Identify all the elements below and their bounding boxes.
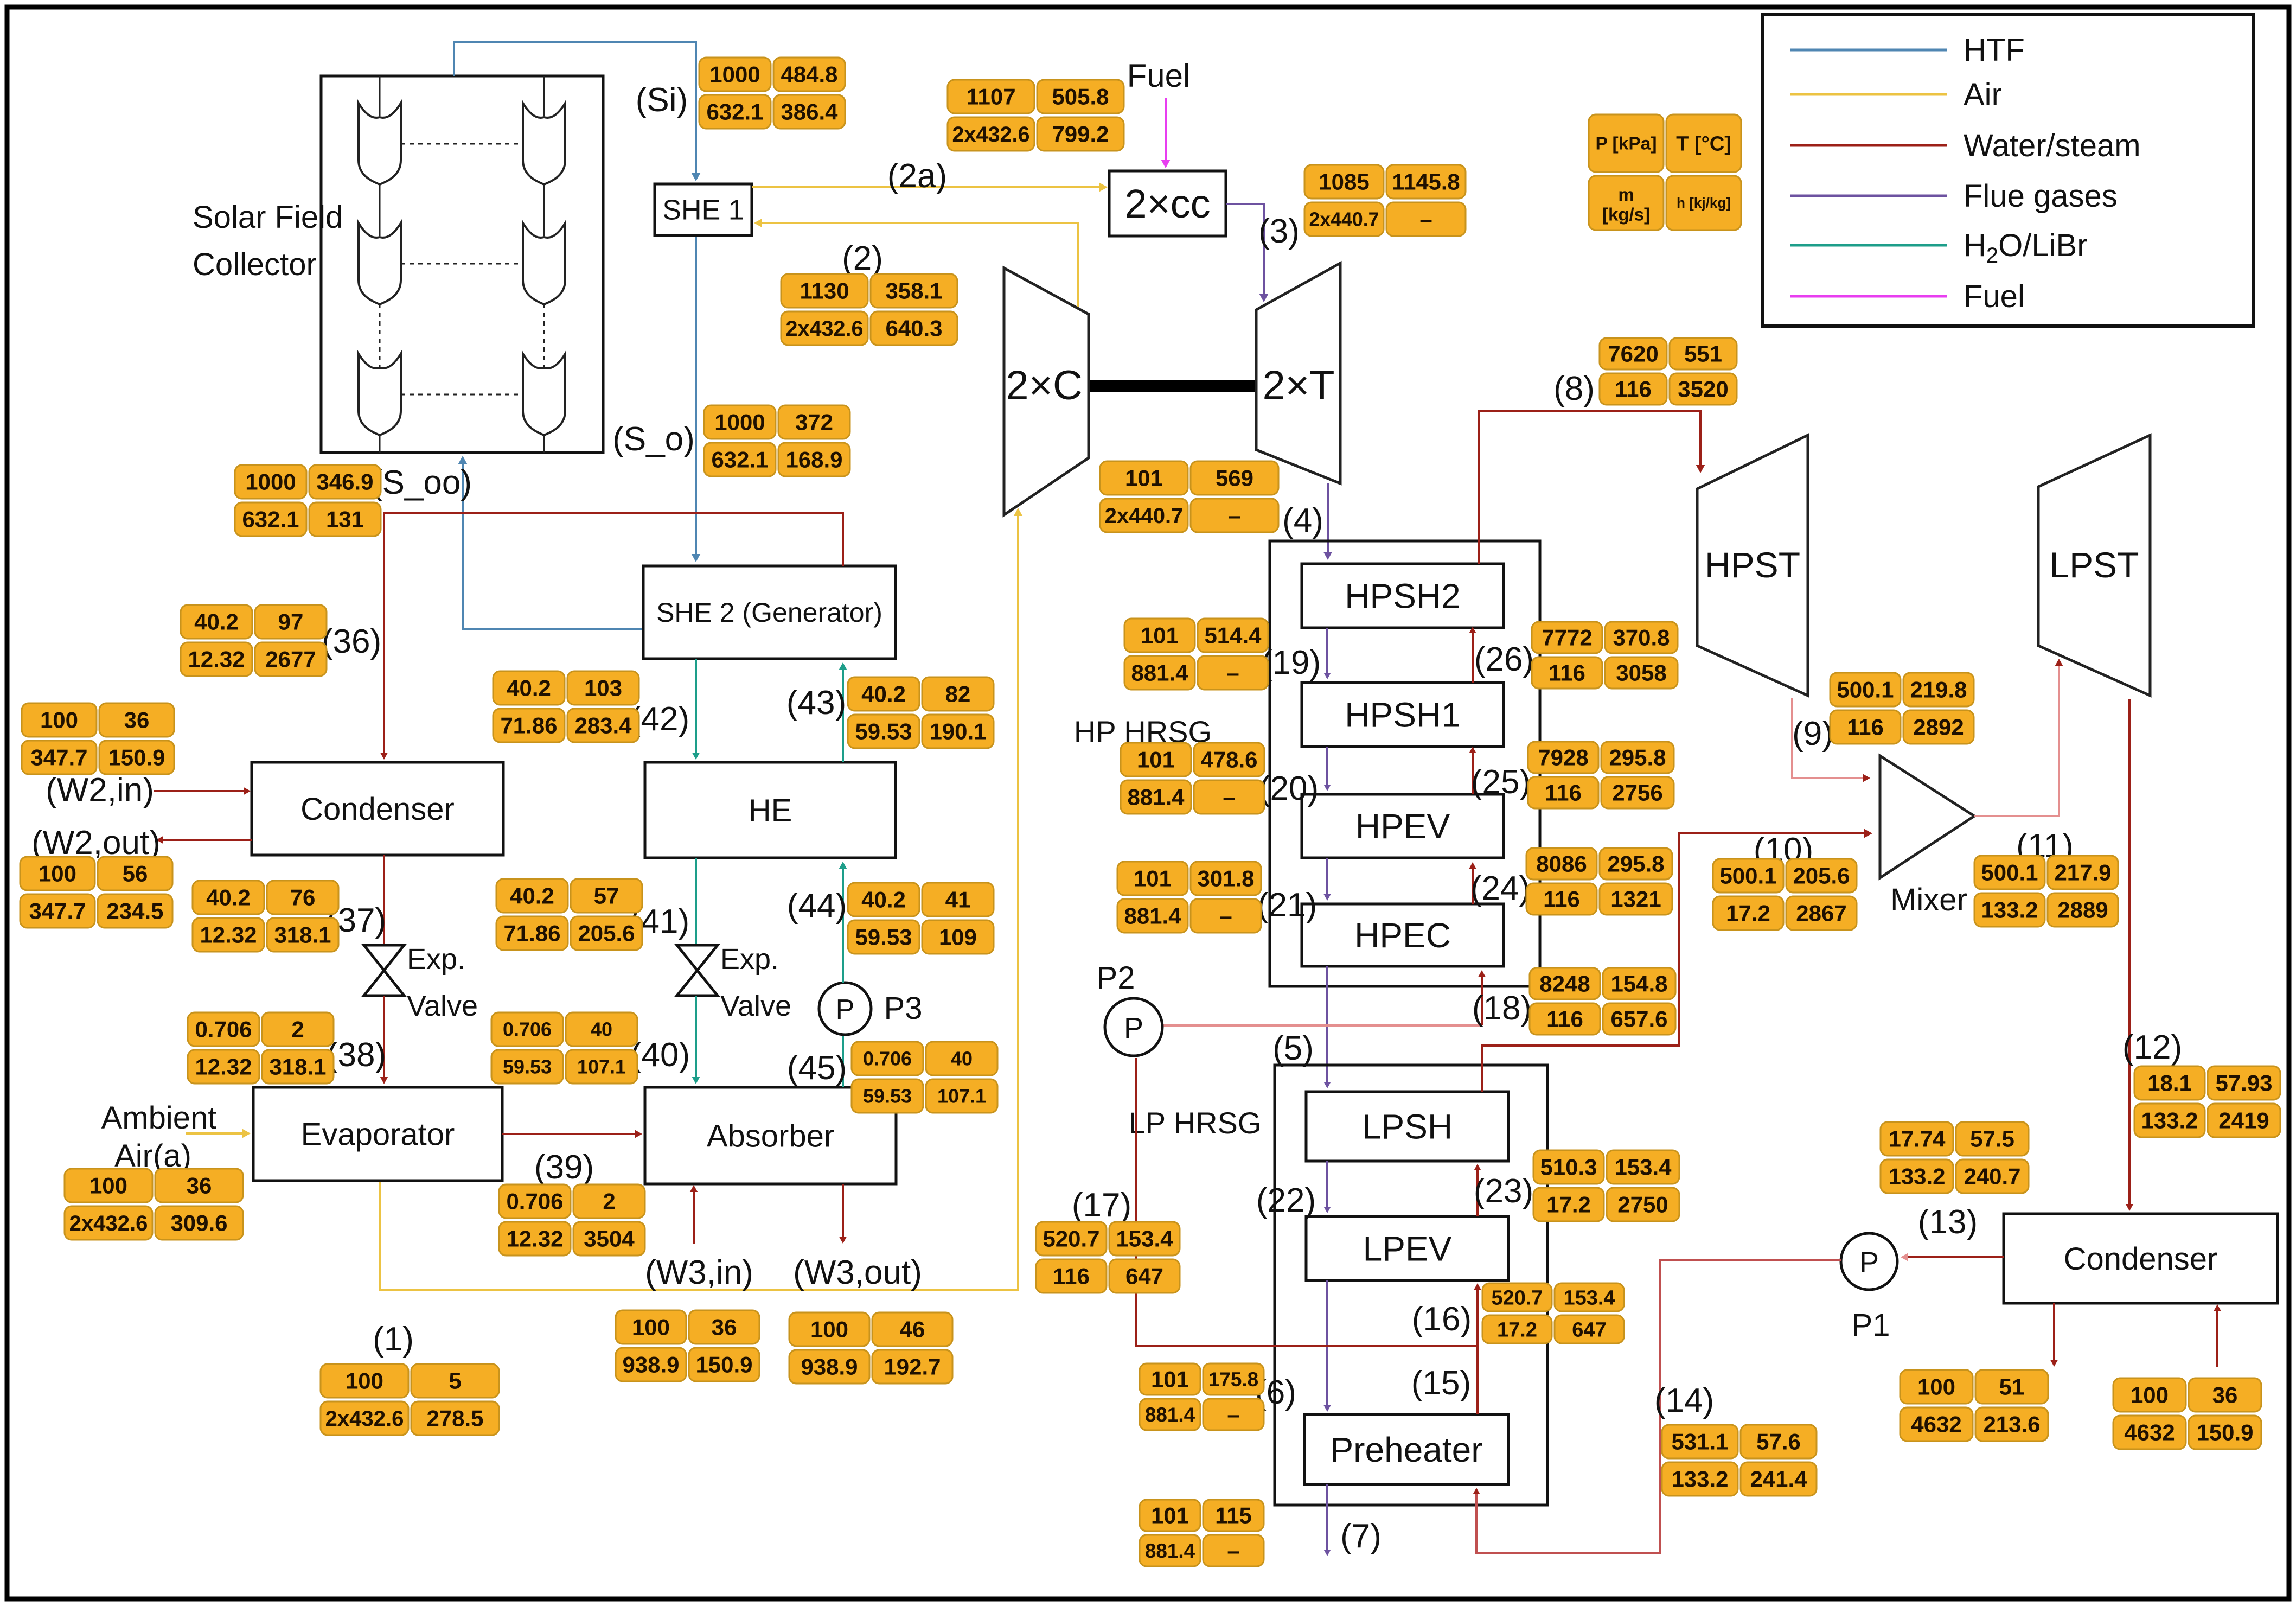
svg-text:–: – <box>1223 785 1235 810</box>
svg-text:347.7: 347.7 <box>30 745 87 770</box>
svg-text:100: 100 <box>89 1173 127 1199</box>
svg-text:116: 116 <box>1545 780 1582 806</box>
solar field collector <box>321 76 603 453</box>
svg-text:(25): (25) <box>1471 763 1531 801</box>
svg-text:358.1: 358.1 <box>885 278 942 304</box>
svg-text:100: 100 <box>632 1315 670 1340</box>
svg-text:76: 76 <box>290 885 316 910</box>
svg-text:133.2: 133.2 <box>1671 1467 1728 1492</box>
svg-text:1000: 1000 <box>709 62 760 87</box>
wire (36) SHE2 to chiller condenser <box>380 513 843 760</box>
heat exchanger SHE 2 (Generator) <box>643 566 896 659</box>
svg-text:40.2: 40.2 <box>861 681 906 707</box>
svg-text:318.1: 318.1 <box>274 922 331 948</box>
svg-text:Air: Air <box>1964 77 2002 112</box>
svg-text:Valve: Valve <box>720 990 791 1022</box>
svg-text:7620: 7620 <box>1608 341 1658 367</box>
svg-text:59.53: 59.53 <box>503 1056 552 1078</box>
label (4) <box>1282 502 1323 539</box>
tag (40) values <box>491 1012 637 1084</box>
svg-text:–: – <box>1419 207 1432 232</box>
label (8) <box>1553 370 1595 407</box>
svg-text:P2: P2 <box>1097 960 1135 996</box>
svg-text:h [kj/kg]: h [kj/kg] <box>1677 195 1731 211</box>
tag (36) values <box>181 605 327 676</box>
wire (10) LPSH to mixer <box>1482 829 1872 1092</box>
wire (41) HE to expansion valve <box>695 858 697 945</box>
svg-text:P3: P3 <box>884 991 923 1026</box>
svg-text:Condenser: Condenser <box>300 792 455 827</box>
label (41) <box>630 903 689 940</box>
svg-text:657.6: 657.6 <box>1610 1006 1667 1032</box>
mixer <box>1880 756 1974 878</box>
svg-text:(18): (18) <box>1472 990 1532 1027</box>
label (44) <box>787 887 847 925</box>
steam turbine LPST <box>2038 435 2150 696</box>
svg-text:190.1: 190.1 <box>929 719 986 744</box>
svg-text:(1): (1) <box>373 1321 414 1358</box>
svg-text:116: 116 <box>1549 660 1585 686</box>
label (18) <box>1472 990 1532 1027</box>
wire (43) HE to SHE2 <box>839 662 847 762</box>
svg-text:(21): (21) <box>1257 887 1317 924</box>
label (5) <box>1272 1030 1314 1067</box>
svg-text:500.1: 500.1 <box>1981 860 2038 885</box>
svg-text:57: 57 <box>594 883 619 909</box>
svg-text:12.32: 12.32 <box>506 1226 563 1252</box>
svg-text:2: 2 <box>603 1189 615 1214</box>
svg-text:36: 36 <box>124 708 150 733</box>
label (6) <box>1255 1374 1296 1411</box>
label Fuel <box>1127 58 1191 94</box>
svg-text:484.8: 484.8 <box>781 62 837 87</box>
svg-text:0.706: 0.706 <box>503 1018 552 1041</box>
svg-text:7772: 7772 <box>1542 625 1592 651</box>
svg-text:153.4: 153.4 <box>1563 1286 1615 1309</box>
label (17) <box>1072 1187 1131 1224</box>
steam turbine HPST <box>1697 435 1808 696</box>
svg-text:(36): (36) <box>322 623 381 660</box>
svg-text:Ambient: Ambient <box>101 1100 217 1136</box>
svg-text:Flue gases: Flue gases <box>1964 179 2118 214</box>
svg-text:632.1: 632.1 <box>706 99 763 125</box>
wire (W1,in) cooling water in <box>2214 1304 2221 1367</box>
tag (17) values <box>1036 1222 1180 1293</box>
svg-text:116: 116 <box>1053 1264 1090 1289</box>
svg-text:2: 2 <box>291 1017 304 1042</box>
svg-text:1130: 1130 <box>800 278 849 304</box>
svg-text:100: 100 <box>39 861 76 887</box>
tag (14) values <box>1662 1425 1817 1496</box>
tag (Si) values <box>699 58 845 129</box>
label LP HRSG <box>1129 1106 1262 1140</box>
svg-text:100: 100 <box>40 708 78 733</box>
svg-text:4632: 4632 <box>1911 1412 1961 1437</box>
wire (W3,out) from absorber <box>839 1184 847 1244</box>
heat exchanger LPSH <box>1306 1092 1508 1161</box>
svg-text:(5): (5) <box>1272 1030 1314 1067</box>
svg-text:T [°C]: T [°C] <box>1676 132 1731 155</box>
tag (9) values <box>1830 673 1974 744</box>
svg-text:8086: 8086 <box>1536 851 1587 877</box>
svg-text:Preheater: Preheater <box>1330 1430 1482 1469</box>
svg-text:17.2: 17.2 <box>1497 1318 1537 1341</box>
label (11) <box>2016 827 2074 865</box>
svg-text:2x440.7: 2x440.7 <box>1105 504 1184 528</box>
tag (7) values <box>1140 1500 1264 1566</box>
svg-text:(W3,out): (W3,out) <box>793 1254 922 1291</box>
svg-text:(S_oo): (S_oo) <box>371 464 472 501</box>
label (25) <box>1471 763 1531 801</box>
label (2) <box>842 240 883 277</box>
svg-text:370.8: 370.8 <box>1613 625 1670 651</box>
svg-text:219.8: 219.8 <box>1910 677 1967 703</box>
svg-text:HPSH1: HPSH1 <box>1345 695 1460 734</box>
svg-text:0.706: 0.706 <box>195 1017 252 1042</box>
wire flue gas HPSH1 to HPEV <box>1323 747 1331 791</box>
label Ambient Air(a) <box>101 1100 217 1174</box>
label (42) <box>630 700 689 738</box>
svg-text:P: P <box>836 994 855 1025</box>
tag (24) values <box>1526 848 1672 915</box>
svg-text:2756: 2756 <box>1612 780 1662 806</box>
label (43) <box>786 684 846 722</box>
tag (37) values <box>193 881 338 952</box>
label (15) <box>1411 1365 1471 1402</box>
tag (4) values <box>1100 461 1278 532</box>
wire (5) flue gas HP HRSG to LP HRSG <box>1323 966 1331 1088</box>
svg-text:(17): (17) <box>1072 1187 1131 1224</box>
combustor 2xcc <box>1109 171 1226 236</box>
label (21) <box>1257 887 1317 924</box>
svg-text:(26): (26) <box>1474 641 1534 678</box>
wire (13) condenser to P1 <box>1901 1253 2004 1261</box>
svg-text:1000: 1000 <box>245 469 296 495</box>
label (S_oo) <box>371 464 472 501</box>
LP HRSG outer box <box>1275 1065 1547 1505</box>
expansion valve (solution) <box>677 945 718 996</box>
tag (12) values <box>2134 1066 2280 1137</box>
wire (W2,out) cooling water out <box>156 836 252 844</box>
svg-text:36: 36 <box>187 1173 212 1199</box>
svg-text:153.4: 153.4 <box>1614 1155 1672 1180</box>
tag (W1,out) values <box>1900 1370 2048 1441</box>
tag (10) values <box>1713 859 1857 930</box>
svg-text:71.86: 71.86 <box>500 713 557 738</box>
svg-text:1085: 1085 <box>1319 169 1369 195</box>
svg-text:–: – <box>1226 660 1239 686</box>
wire (24) HPEC to HPEV <box>1469 862 1476 904</box>
svg-text:115: 115 <box>1215 1503 1252 1528</box>
label (26) <box>1474 641 1534 678</box>
svg-text:168.9: 168.9 <box>785 447 842 473</box>
svg-text:2×T: 2×T <box>1262 362 1334 409</box>
tag (41) values <box>496 879 642 950</box>
wire (15) preheater outlet <box>1476 1346 1479 1414</box>
svg-text:59.53: 59.53 <box>855 925 912 950</box>
label (16) <box>1412 1301 1472 1338</box>
svg-text:131: 131 <box>326 507 364 532</box>
svg-text:551: 551 <box>1684 341 1722 367</box>
tag (2) values <box>781 274 957 345</box>
svg-text:881.4: 881.4 <box>1131 660 1188 686</box>
svg-text:Evaporator: Evaporator <box>301 1117 455 1152</box>
tag (11) values <box>1974 856 2118 927</box>
svg-text:150.9: 150.9 <box>695 1352 752 1378</box>
svg-text:150.9: 150.9 <box>108 745 165 770</box>
wire flue gas HPSH2 to HPSH1 <box>1323 628 1331 679</box>
svg-text:1000: 1000 <box>714 410 765 435</box>
svg-text:301.8: 301.8 <box>1197 866 1254 891</box>
label (39) <box>534 1149 594 1186</box>
svg-text:0.706: 0.706 <box>863 1048 912 1070</box>
wire (12) LPST exhaust to condenser <box>2126 699 2133 1211</box>
svg-text:41: 41 <box>945 887 971 913</box>
svg-text:107.1: 107.1 <box>937 1085 986 1107</box>
wire (8) HPSH2 to HPST <box>1479 411 1705 564</box>
svg-text:17.74: 17.74 <box>1888 1126 1946 1152</box>
tag (43) values <box>848 677 994 748</box>
label P1 <box>1852 1308 1890 1343</box>
wire (3) combustor to turbine <box>1226 204 1268 302</box>
label (7) <box>1340 1518 1382 1555</box>
svg-text:(9): (9) <box>1792 715 1833 753</box>
svg-text:4632: 4632 <box>2124 1420 2175 1445</box>
wire flue gas LPSH to LPEV <box>1323 1161 1331 1213</box>
svg-text:(20): (20) <box>1259 770 1319 807</box>
svg-text:1107: 1107 <box>966 84 1015 110</box>
svg-text:3520: 3520 <box>1678 377 1728 402</box>
svg-text:Condenser: Condenser <box>2064 1241 2218 1277</box>
svg-text:2×C: 2×C <box>1006 362 1083 409</box>
svg-text:LPEV: LPEV <box>1363 1229 1452 1268</box>
wire flue gas HPEV to HPEC <box>1323 858 1331 901</box>
pump P2 <box>1105 998 1162 1056</box>
wire (40) valve to absorber <box>692 996 700 1084</box>
svg-text:Fuel: Fuel <box>1127 58 1191 94</box>
svg-text:881.4: 881.4 <box>1127 785 1185 810</box>
svg-text:2x432.6: 2x432.6 <box>69 1212 148 1235</box>
svg-text:7928: 7928 <box>1538 745 1588 770</box>
svg-text:2867: 2867 <box>1796 901 1846 926</box>
svg-text:1321: 1321 <box>1610 887 1661 912</box>
svg-text:2x432.6: 2x432.6 <box>952 123 1029 146</box>
svg-text:881.4: 881.4 <box>1124 903 1181 929</box>
wire (9) HPST exhaust to mixer <box>1792 698 1870 782</box>
svg-text:(8): (8) <box>1553 370 1595 407</box>
svg-text:101: 101 <box>1134 866 1172 891</box>
label HP HRSG <box>1074 715 1212 749</box>
tag (S_oo) values <box>235 465 381 536</box>
svg-text:116: 116 <box>1543 887 1580 912</box>
tag (W3,out) values <box>789 1312 952 1384</box>
wire (45) absorber to pump P3 <box>842 1035 844 1087</box>
svg-text:57.6: 57.6 <box>1756 1429 1801 1455</box>
svg-text:100: 100 <box>2131 1382 2169 1408</box>
label (S_o) <box>612 420 695 458</box>
heat exchanger LPEV <box>1306 1216 1508 1280</box>
tag (18) values <box>1530 968 1675 1035</box>
svg-text:217.9: 217.9 <box>2054 860 2111 885</box>
svg-text:(22): (22) <box>1256 1182 1316 1219</box>
svg-text:17.2: 17.2 <box>1726 901 1770 926</box>
wire (17) to pump P2 <box>1136 1058 1478 1346</box>
tag (13) values <box>1881 1122 2029 1193</box>
svg-text:(S_o): (S_o) <box>612 420 695 458</box>
svg-text:569: 569 <box>1216 466 1253 491</box>
svg-text:Fuel: Fuel <box>1964 279 2025 314</box>
svg-text:HPST: HPST <box>1705 545 1800 585</box>
label (24) <box>1470 870 1530 907</box>
svg-text:P: P <box>1859 1246 1879 1279</box>
svg-text:372: 372 <box>795 410 833 435</box>
label (14) <box>1654 1382 1714 1419</box>
svg-text:HTF: HTF <box>1964 33 2025 68</box>
tag (1) values <box>321 1364 499 1435</box>
wire (W1,out) cooling water out <box>2050 1303 2058 1367</box>
svg-text:100: 100 <box>346 1368 383 1394</box>
absorber <box>645 1087 896 1184</box>
svg-text:(14): (14) <box>1654 1382 1714 1419</box>
heat exchanger HE <box>645 762 896 858</box>
svg-text:40.2: 40.2 <box>194 609 239 635</box>
svg-text:2x440.7: 2x440.7 <box>1309 209 1379 231</box>
tag (2a) values <box>948 80 1124 151</box>
svg-text:150.9: 150.9 <box>2196 1420 2253 1445</box>
svg-text:133.2: 133.2 <box>2141 1108 2198 1133</box>
svg-text:(24): (24) <box>1470 870 1530 907</box>
tag (W2,in) values <box>22 703 174 774</box>
svg-text:HE: HE <box>749 793 792 828</box>
svg-text:3504: 3504 <box>584 1226 635 1252</box>
wire (W2,in) cooling water in <box>154 787 251 795</box>
label (W3,out) <box>793 1254 922 1291</box>
svg-text:240.7: 240.7 <box>1964 1164 2020 1189</box>
svg-text:(12): (12) <box>2122 1029 2182 1066</box>
heat exchanger HPEV <box>1302 794 1504 858</box>
heat exchanger HPSH2 <box>1302 564 1504 628</box>
label (13) <box>1918 1203 1978 1241</box>
tag (W1,in) values <box>2113 1378 2261 1449</box>
svg-text:57.5: 57.5 <box>1970 1126 2014 1152</box>
svg-text:40: 40 <box>951 1048 973 1070</box>
svg-text:2×cc: 2×cc <box>1124 181 1210 226</box>
svg-text:(23): (23) <box>1474 1172 1533 1210</box>
condenser (steam cycle) <box>2004 1214 2278 1303</box>
svg-text:283.4: 283.4 <box>574 713 632 738</box>
svg-text:510.3: 510.3 <box>1540 1155 1597 1180</box>
svg-text:295.8: 295.8 <box>1609 745 1666 770</box>
svg-text:478.6: 478.6 <box>1200 747 1257 773</box>
svg-text:–: – <box>1227 1538 1239 1564</box>
svg-text:82: 82 <box>945 681 971 707</box>
svg-text:2892: 2892 <box>1913 715 1964 740</box>
svg-text:12.32: 12.32 <box>188 647 245 672</box>
tag (W3,in) values <box>616 1310 759 1381</box>
label (3) <box>1258 213 1300 250</box>
svg-text:318.1: 318.1 <box>269 1054 326 1080</box>
label (W2,out) <box>31 824 161 862</box>
svg-text:–: – <box>1219 903 1232 929</box>
wire (26) HPSH1 to HPSH2 <box>1469 627 1476 683</box>
svg-text:(39): (39) <box>534 1149 594 1186</box>
svg-text:647: 647 <box>1572 1318 1606 1341</box>
wire (W3,in) into absorber <box>690 1185 698 1244</box>
svg-text:51: 51 <box>1999 1374 2025 1400</box>
svg-text:(2): (2) <box>842 240 883 277</box>
label (37) <box>327 902 386 939</box>
svg-text:500.1: 500.1 <box>1837 677 1894 703</box>
tag (39) values <box>499 1184 645 1256</box>
svg-text:Mixer: Mixer <box>1890 882 1967 917</box>
svg-text:(13): (13) <box>1918 1203 1978 1241</box>
svg-text:101: 101 <box>1141 623 1179 648</box>
label (45) <box>787 1049 847 1087</box>
wire (38) valve to evaporator <box>380 996 388 1084</box>
label Exp. Valve right <box>720 943 791 1022</box>
svg-text:103: 103 <box>584 675 622 701</box>
label Mixer <box>1890 882 1967 917</box>
svg-text:(16): (16) <box>1412 1301 1472 1338</box>
svg-text:505.8: 505.8 <box>1052 84 1109 110</box>
svg-text:2889: 2889 <box>2057 897 2108 923</box>
wire (Si) HTF collector to SHE1 <box>454 42 700 181</box>
tag (16) values <box>1482 1283 1624 1343</box>
svg-text:(19): (19) <box>1261 644 1321 681</box>
label (36) <box>322 623 381 660</box>
condenser (chiller) <box>252 762 503 855</box>
tag (25) values <box>1528 742 1674 808</box>
svg-text:P1: P1 <box>1852 1308 1890 1343</box>
heat exchanger HPSH1 <box>1302 683 1504 747</box>
svg-text:m: m <box>1618 184 1634 205</box>
label P2 <box>1097 960 1135 996</box>
HP HRSG outer box <box>1270 541 1540 986</box>
svg-text:101: 101 <box>1125 466 1163 491</box>
pump P3 <box>819 983 871 1035</box>
svg-text:101: 101 <box>1137 747 1175 773</box>
svg-text:40.2: 40.2 <box>507 675 551 701</box>
svg-text:HPSH2: HPSH2 <box>1345 576 1460 615</box>
svg-text:938.9: 938.9 <box>622 1352 679 1378</box>
svg-text:346.9: 346.9 <box>316 469 373 495</box>
svg-text:(38): (38) <box>327 1036 386 1074</box>
svg-text:Valve: Valve <box>407 990 478 1022</box>
svg-text:295.8: 295.8 <box>1607 851 1664 877</box>
wire fuel into combustor <box>1161 98 1170 168</box>
wire (18) P2 to HPEC <box>1163 970 1486 1025</box>
svg-text:P: P <box>1124 1012 1143 1044</box>
svg-text:LPSH: LPSH <box>1362 1107 1453 1146</box>
svg-text:HPEC: HPEC <box>1354 916 1451 955</box>
svg-text:Exp.: Exp. <box>407 943 465 976</box>
tag (45) values <box>852 1042 997 1113</box>
tag (42) values <box>493 671 639 742</box>
svg-text:107.1: 107.1 <box>577 1056 626 1078</box>
label (10) <box>1754 831 1813 869</box>
svg-text:Absorber: Absorber <box>707 1118 834 1153</box>
svg-text:(15): (15) <box>1411 1365 1471 1402</box>
svg-text:(4): (4) <box>1282 502 1323 539</box>
label P3 <box>884 991 923 1026</box>
svg-text:71.86: 71.86 <box>503 921 560 946</box>
svg-text:(3): (3) <box>1258 213 1300 250</box>
svg-text:531.1: 531.1 <box>1671 1429 1728 1455</box>
label (23) <box>1474 1172 1533 1210</box>
svg-text:Collector: Collector <box>193 247 317 282</box>
svg-text:56: 56 <box>123 861 148 887</box>
svg-text:LP HRSG: LP HRSG <box>1129 1106 1262 1140</box>
